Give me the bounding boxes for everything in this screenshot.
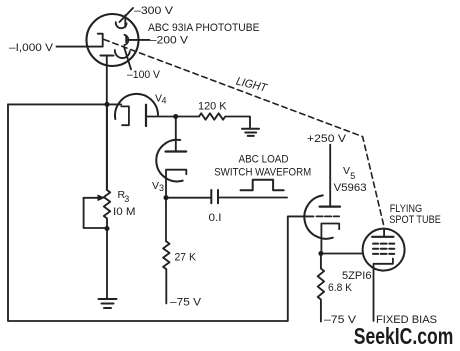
svg-text:–75 V: –75 V xyxy=(170,297,202,309)
svg-text:4: 4 xyxy=(162,96,167,106)
svg-text:0.I: 0.I xyxy=(209,212,222,224)
svg-text:5: 5 xyxy=(350,171,355,181)
svg-text:SWITCH WAVEFORM: SWITCH WAVEFORM xyxy=(214,167,311,179)
svg-text:3: 3 xyxy=(124,194,129,204)
svg-text:–I,000 V: –I,000 V xyxy=(9,42,54,54)
svg-text:I0 M: I0 M xyxy=(113,206,136,218)
svg-text:ABC 93IA PHOTOTUBE: ABC 93IA PHOTOTUBE xyxy=(148,22,260,34)
svg-text:6.8 K: 6.8 K xyxy=(328,282,353,294)
svg-text:–75 V: –75 V xyxy=(324,314,357,326)
svg-text:SeekIC.com: SeekIC.com xyxy=(354,323,454,349)
svg-text:–300 V: –300 V xyxy=(134,5,174,17)
svg-text:V5963: V5963 xyxy=(334,182,367,194)
svg-text:3: 3 xyxy=(159,183,164,193)
svg-text:5ZPI6: 5ZPI6 xyxy=(342,270,372,282)
svg-text:V: V xyxy=(152,180,159,192)
svg-text:–200 V: –200 V xyxy=(150,35,189,47)
svg-text:+250 V: +250 V xyxy=(307,133,347,145)
svg-text:–100 V: –100 V xyxy=(127,69,161,81)
svg-text:27 K: 27 K xyxy=(175,251,197,263)
svg-text:SPOT TUBE: SPOT TUBE xyxy=(389,214,441,226)
svg-text:V: V xyxy=(343,165,350,177)
svg-text:120 K: 120 K xyxy=(198,100,227,112)
svg-text:ABC LOAD: ABC LOAD xyxy=(239,154,289,166)
